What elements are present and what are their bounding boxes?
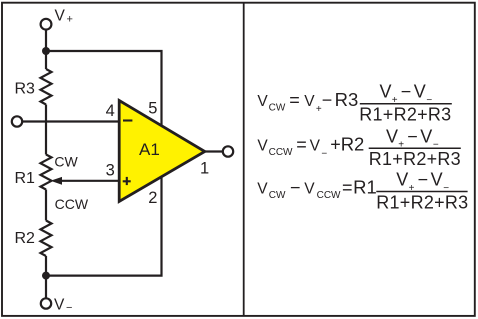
resistor R2 [41,221,52,257]
svg-text:3: 3 [106,162,115,180]
svg-text:V: V [420,126,432,146]
wire R3 bottom to R1 top [45,105,47,155]
svg-text:R1+R2+R3: R1+R2+R3 [376,192,468,212]
svg-text:R1+R2+R3: R1+R2+R3 [369,149,461,169]
svg-text:R1: R1 [353,177,377,198]
svg-text:V: V [414,82,426,102]
wire bottom rail to pin 2 [46,177,162,276]
svg-text:R1: R1 [15,170,36,187]
junction dot top [42,47,50,55]
equation 3: Vcw - Vccw = R1 (V+-V-)/(R1+R2+R3) [257,170,468,213]
svg-text:V: V [257,138,268,155]
svg-text:+: + [330,135,341,155]
junction dot bottom [42,272,50,280]
svg-text:=: = [342,178,353,198]
wire wiper to op-amp pin 3 [60,180,120,182]
svg-text:V: V [257,93,268,110]
svg-text:CW: CW [269,190,286,201]
svg-text:A1: A1 [139,140,160,159]
svg-text:−: − [401,82,412,102]
label V- [54,296,72,314]
svg-text:R1+R2+R3: R1+R2+R3 [359,105,451,125]
svg-text:R2: R2 [341,134,365,155]
svg-text:V: V [396,170,408,190]
wire left terminal to op-amp pin 4 [22,120,119,122]
label V+ [55,8,73,26]
svg-text:R3: R3 [15,81,36,98]
svg-text:V: V [257,181,268,198]
wire R2 bottom to V- terminal (through junction) [45,256,47,298]
svg-text:−: − [407,126,418,146]
svg-text:2: 2 [148,189,157,207]
wire top rail to pin 5 [46,51,162,126]
plus input symbol [123,177,131,185]
svg-text:4: 4 [106,102,115,120]
svg-text:V: V [386,126,398,146]
potentiometer R1 [41,155,52,190]
op-amp A1 [119,101,205,202]
resistor R3 [41,69,52,105]
svg-text:CCW: CCW [269,147,293,158]
svg-text:−: − [66,302,72,314]
equation 1: Vcw = V+ - R3 (V+-V-)/(R1+R2+R3) [257,82,451,125]
svg-text:CCW: CCW [317,190,341,201]
svg-text:R3: R3 [335,89,359,110]
svg-text:−: − [322,90,333,110]
wiper arrow of R1 [51,177,63,185]
output terminal [223,146,233,156]
svg-text:−: − [418,170,429,190]
wire R1 bottom to R2 top [45,190,47,221]
terminal V- [41,298,51,308]
svg-text:V: V [310,138,321,155]
svg-text:CW: CW [269,103,286,114]
svg-text:V: V [304,181,315,198]
input terminal left [12,116,22,126]
svg-text:V: V [431,170,443,190]
svg-text:1: 1 [200,160,209,178]
panel divider [243,3,245,316]
svg-text:5: 5 [148,99,157,117]
svg-text:V: V [54,296,65,313]
svg-text:CCW: CCW [55,196,89,212]
svg-text:V: V [380,82,392,102]
svg-text:+: + [67,14,73,26]
wire op-amp output [205,150,223,152]
svg-text:=: = [296,135,307,155]
svg-text:R2: R2 [15,230,36,247]
svg-text:−: − [321,148,327,159]
svg-text:CW: CW [54,153,78,169]
wire V+ to R3 top (through junction) [45,30,47,70]
equation 2: Vccw = V- + R2 (V+-V-)/(R1+R2+R3) [257,126,460,169]
terminal V+ [41,19,52,30]
svg-text:−: − [290,178,301,198]
svg-text:=: = [289,90,300,110]
svg-text:V: V [304,93,315,110]
minus input symbol [123,119,132,121]
svg-text:V: V [55,8,66,25]
